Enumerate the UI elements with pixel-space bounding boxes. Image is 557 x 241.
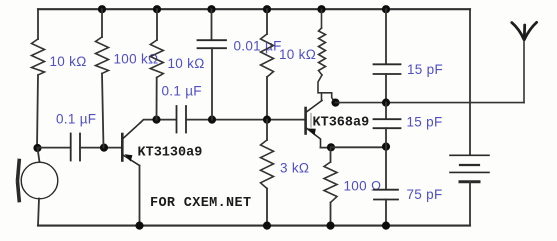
node: top rail / C3 junction xyxy=(207,5,215,13)
node: top rail / R2 junction xyxy=(98,5,106,13)
svg-text:3 kΩ: 3 kΩ xyxy=(280,161,309,176)
svg-text:100 kΩ: 100 kΩ xyxy=(114,52,159,67)
resistor R4 (10 kOhm) xyxy=(261,34,274,77)
node: emitter node right xyxy=(382,143,390,151)
wire: R6 bottom to ground rail xyxy=(330,203,332,226)
wire: top rail to C3 xyxy=(211,9,213,40)
node: Q2 collector junction xyxy=(331,99,339,107)
wire: bottom ground rail xyxy=(38,225,470,227)
svg-text:10 kΩ: 10 kΩ xyxy=(168,56,205,71)
node: emitter node left xyxy=(327,143,335,151)
wire: top rail right corner down to battery xyxy=(469,9,471,155)
capacitor C2 (0.1 uF interstage) xyxy=(177,106,187,133)
node: top rail / C4 junction xyxy=(382,5,390,13)
node: C6 at ground rail xyxy=(382,222,390,230)
svg-text:75 pF: 75 pF xyxy=(407,187,443,202)
svg-text:FOR CXEM.NET: FOR CXEM.NET xyxy=(150,196,251,211)
svg-text:0.01 µF: 0.01 µF xyxy=(234,39,282,54)
wire: top rail to C4 xyxy=(385,9,387,64)
microphone BM1 (electret capsule) xyxy=(18,161,58,201)
transistor Q1 KT3130a9 (NPN) xyxy=(122,123,140,166)
wire: battery bottom to ground rail xyxy=(469,182,471,226)
battery GB1 xyxy=(450,155,489,182)
svg-text:0.1 µF: 0.1 µF xyxy=(56,112,96,127)
wire: emitter node bus xyxy=(331,146,386,148)
node: bus / C3 junction xyxy=(208,116,216,124)
transistor Q2 KT368a9 (NPN) xyxy=(306,101,322,148)
capacitor C5 (15 pF feedback) xyxy=(374,119,401,128)
wire: mic node to C1 xyxy=(38,147,71,149)
svg-text:10 kΩ: 10 kΩ xyxy=(279,47,316,62)
wire: top rail to R2 xyxy=(101,9,103,37)
node: R6 at ground rail xyxy=(326,222,334,230)
capacitor C4 (15 pF tank) xyxy=(374,64,401,74)
wire: top rail to R4 xyxy=(266,9,268,34)
wire: Q1 collector to mid bus xyxy=(140,120,176,123)
svg-text:15 pF: 15 pF xyxy=(407,62,443,77)
wire: emitter node down to R6 xyxy=(330,147,332,162)
node: R5 at ground rail xyxy=(263,222,271,230)
wire: antenna vertical lead xyxy=(523,39,525,103)
scan artifact tick before Q2 label xyxy=(310,114,312,128)
node: mid bus / R3 junction xyxy=(152,116,160,124)
antenna WA1 xyxy=(512,22,537,39)
wire: R4 bottom to bus xyxy=(266,77,268,120)
transistor Q1 emitter arrow xyxy=(125,154,133,161)
wire: collector node to antenna corner xyxy=(336,102,525,104)
wire: collector node to C5 xyxy=(385,103,387,119)
node: Q1 base junction xyxy=(100,144,108,152)
node: top rail / L1 junction xyxy=(317,5,325,13)
capacitor C3 (0.01 uF) xyxy=(198,40,227,48)
wire: node down to microphone xyxy=(38,148,40,162)
wire: left branch vertical (top rail to R1) xyxy=(37,9,39,39)
wire: Q2 emitter to emitter node xyxy=(321,147,332,149)
svg-text:0.1 µF: 0.1 µF xyxy=(162,84,202,99)
svg-text:15 pF: 15 pF xyxy=(407,115,443,130)
svg-text:KT3130a9: KT3130a9 xyxy=(138,146,203,161)
wire: C2 to Q2 base bus xyxy=(186,119,305,121)
wire: C6 bottom to ground rail xyxy=(385,200,387,226)
wire: Q1 emitter to ground rail xyxy=(139,166,141,226)
wire: top V+ rail xyxy=(38,8,470,10)
wire: R2 bottom to Q1 base node xyxy=(102,74,104,148)
wire: R5 bottom to ground rail xyxy=(266,189,268,226)
transistor Q2 emitter arrow xyxy=(308,129,316,136)
wire: C5 bottom to emitter node xyxy=(385,128,387,146)
svg-text:10 kΩ: 10 kΩ xyxy=(50,54,87,69)
node: Q1 emitter at ground rail xyxy=(135,222,143,230)
wire: microphone bottom to ground rail xyxy=(38,199,39,226)
wire: emitter node to C6 xyxy=(385,147,387,190)
wire: C4 bottom to collector node xyxy=(385,74,387,103)
wire: C3 bottom to bus xyxy=(211,48,213,119)
wire: R3 bottom to mid bus xyxy=(156,78,158,120)
wire: C1 to Q1 base (base node) xyxy=(80,147,121,149)
svg-text:KT368a9: KT368a9 xyxy=(313,116,370,131)
wire: R1 bottom to mic node xyxy=(37,75,38,148)
svg-text:100 Ω: 100 Ω xyxy=(344,179,382,194)
node: top rail / R4 junction xyxy=(263,5,271,13)
node: top rail / R3 junction xyxy=(153,5,161,13)
resistor R2 (100 kOhm) xyxy=(96,37,109,74)
node: bus / divider junction xyxy=(263,116,271,124)
node: mic/C1 junction xyxy=(33,144,41,152)
resistor R5 (3 kOhm) xyxy=(261,140,274,189)
resistor R6 (100 Ohm) xyxy=(324,162,337,203)
node: collector node right xyxy=(382,99,390,107)
capacitor C6 (75 pF) xyxy=(374,190,398,200)
resistor R3 (10 kOhm) xyxy=(150,40,163,78)
wire: bus down to R5 xyxy=(266,120,268,140)
wire: top rail to R3 xyxy=(156,9,158,40)
resistor R1 (10 kOhm) xyxy=(32,39,45,75)
inductor L1 (collector choke) xyxy=(318,9,335,103)
capacitor C1 (0.1 uF input coupling) xyxy=(71,134,80,161)
